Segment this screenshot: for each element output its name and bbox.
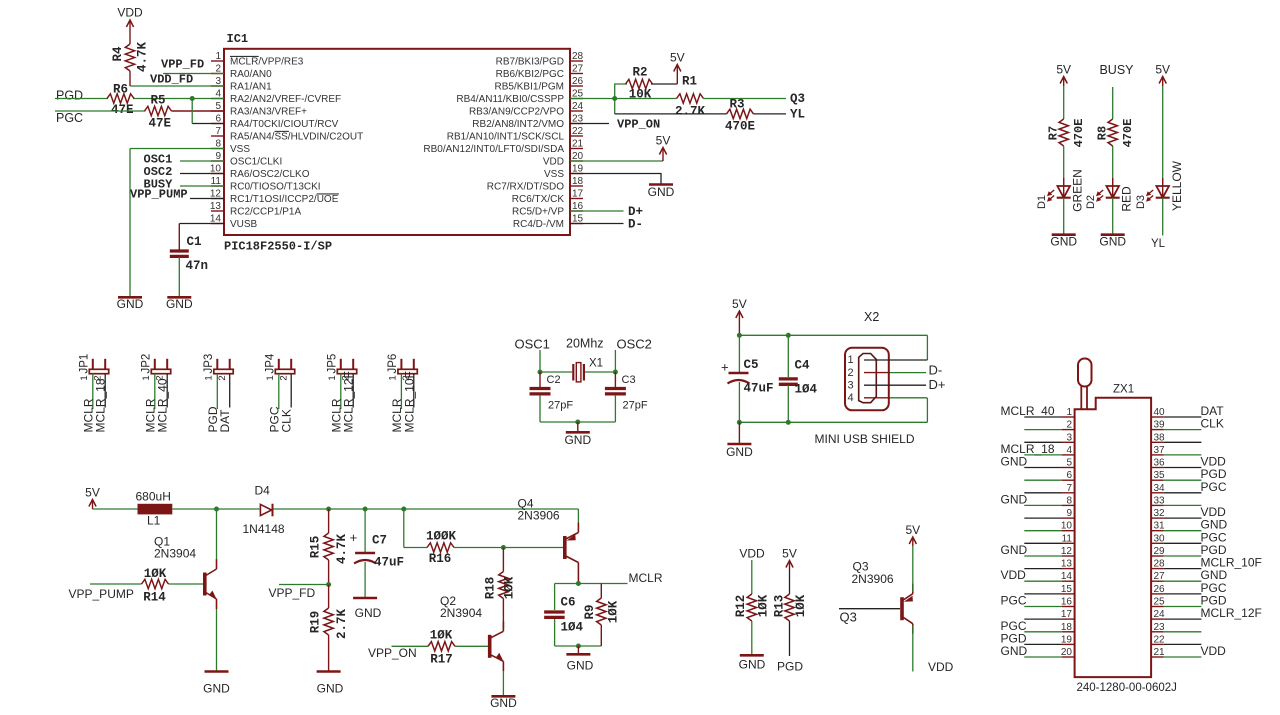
svg-text:PGC: PGC [1001,594,1027,608]
svg-text:27: 27 [572,64,584,75]
wire Q1 collector [216,509,218,560]
svg-text:1Ø4: 1Ø4 [795,383,818,397]
transistor Q4 (pnp) [518,497,579,573]
wire C7 to GND [364,562,366,597]
node label MCLR (JP5) [329,398,343,432]
wire R18 leads [502,548,504,629]
wire VPP_PUMP to R14 [90,583,142,585]
wire usb top rail [739,335,927,360]
svg-text:1N4148: 1N4148 [243,522,285,536]
wire JP6 pin2 net MCLR_10F [413,374,415,408]
node label MCLR_10F (JP6) [402,371,416,432]
wire C3 to rail [614,395,616,422]
node label YL [790,108,805,122]
svg-text:CLK: CLK [280,409,294,432]
svg-text:VDD_FD: VDD_FD [150,73,193,87]
node label VPP_FD (bottom) [269,586,316,600]
resistor R16 [426,530,457,567]
wire VPP_FD [279,584,329,586]
svg-text:2: 2 [848,367,854,379]
svg-text:13: 13 [210,201,222,212]
wire Q4 collector down [577,573,579,584]
svg-text:47uF: 47uF [374,556,404,570]
svg-text:CLK: CLK [1201,417,1224,431]
svg-text:R9: R9 [583,604,597,619]
resistor R13 [773,594,809,621]
wire R3 to YL label [754,113,787,115]
svg-text:PIC18F2550-I/SP: PIC18F2550-I/SP [224,240,332,254]
svg-text:JP1: JP1 [78,354,90,374]
led D3 labels [1135,160,1184,211]
node label VPP_PUMP [130,188,188,202]
svg-text:2N3906: 2N3906 [518,509,560,523]
node label PGD (JP3) [206,406,220,432]
resistor R17 [428,629,455,667]
svg-text:17: 17 [1061,609,1073,620]
svg-text:GND: GND [203,682,230,696]
svg-text:GND: GND [564,433,591,447]
svg-text:5: 5 [1066,458,1072,469]
usb connector X2 outline [845,348,889,411]
ground (Q2) [490,696,517,710]
ground (C7) [353,598,382,620]
ground (below VSS) [117,297,144,311]
svg-text:RC5/D+/VP: RC5/D+/VP [512,207,564,218]
svg-text:RA1/AN1: RA1/AN1 [230,82,272,93]
node label Q3 (base) [840,610,857,625]
svg-text:R5: R5 [151,94,166,108]
wire JP3 pin2 net DAT [229,374,231,408]
wire JP2 pin1 net MCLR [154,374,156,409]
ground (below C1) [166,297,193,311]
ic IC1 PIC18F2550 outline [224,49,570,235]
supply 5V (D1) [1056,63,1071,87]
svg-text:4: 4 [1066,445,1072,456]
zif ZX1 lever [1078,359,1092,410]
zif ZX1 left pins 1-20 with labels [1001,404,1075,658]
wire VPP_FD to pin2 [163,73,224,75]
wire R2 branch [615,84,678,99]
supply 5V (pin20) [656,134,671,162]
svg-text:47uF: 47uF [744,382,774,396]
svg-text:X1: X1 [589,358,603,370]
svg-text:C7: C7 [372,534,387,548]
svg-text:23: 23 [1154,622,1166,633]
svg-text:GND: GND [726,445,753,459]
node junction Q1 collector [214,507,219,512]
svg-text:+: + [721,360,729,375]
svg-text:5V: 5V [1155,63,1170,77]
svg-text:R12: R12 [734,595,748,618]
svg-text:R7: R7 [1047,126,1061,140]
node label D- (usb) [929,363,943,378]
svg-text:8: 8 [1066,495,1072,506]
svg-text:VPP_FD: VPP_FD [161,58,204,72]
wire usb pin4 [864,397,927,399]
svg-text:C2: C2 [547,374,561,386]
svg-text:5V: 5V [782,547,797,561]
wire to X1 left [540,371,572,373]
wire X1 to OSC2 node [585,371,615,373]
svg-text:MCLR_12F: MCLR_12F [342,371,356,432]
wire OSC1 down [539,350,541,372]
svg-text:32: 32 [1154,508,1166,519]
svg-text:OSC2: OSC2 [617,337,652,352]
wire VPP_ON pin23 [570,123,609,125]
svg-text:DAT: DAT [218,409,232,433]
svg-text:RC6/TX/CK: RC6/TX/CK [512,194,565,205]
supply VDD arrow (top left) [117,6,143,45]
led D3 [1146,178,1170,202]
svg-text:D2: D2 [1085,195,1097,209]
svg-text:RA6/OSC2/CLKO: RA6/OSC2/CLKO [230,169,310,180]
svg-text:R6: R6 [113,83,128,97]
resistor R19 [309,608,350,639]
svg-text:+: + [350,530,358,545]
wire Q2 emitter to GND [502,671,504,695]
svg-text:VPP_ON: VPP_ON [368,646,417,660]
svg-text:1ØK: 1ØK [757,594,771,617]
svg-text:GND: GND [1001,492,1028,506]
svg-text:RB0/AN12/INT0/LFT0/SDI/SDA: RB0/AN12/INT0/LFT0/SDI/SDA [423,144,564,155]
zif ZX1 labels [1077,384,1177,695]
wire junction to pin6 [192,99,224,124]
wire usb pin2 D- [864,372,926,374]
wire pin25 net [570,98,677,100]
svg-text:40: 40 [1154,407,1166,418]
node junction C4 bottom [786,420,791,425]
node label MCLR [629,571,663,585]
node junction C2 [538,370,543,375]
wire VUSB pin14 to C1 [179,224,224,250]
svg-text:31: 31 [1154,521,1166,532]
node label OSC1 (xtal) [515,337,550,352]
node junction C7 top [363,507,368,512]
svg-text:C4: C4 [795,359,811,373]
svg-text:L1: L1 [147,514,161,528]
svg-text:RC7/RX/DT/SDO: RC7/RX/DT/SDO [487,182,564,193]
jumper JP4 [264,353,294,381]
svg-text:VPP_PUMP: VPP_PUMP [69,587,134,601]
svg-text:MCLR: MCLR [629,571,663,585]
svg-text:D-: D- [929,363,943,378]
wire D- pin15 [570,223,624,225]
node label D- (ic) [628,218,643,232]
node junction xtal gnd [575,420,580,425]
node label PGC [56,111,83,125]
node label BUSY (top) [1099,63,1134,77]
wire usb pin1 [864,359,927,361]
svg-text:5V: 5V [1056,63,1071,77]
svg-text:2: 2 [279,375,290,380]
svg-text:VDD: VDD [928,660,954,674]
wire C2 to rail [539,395,541,422]
transistor Q2 [440,594,504,671]
wire Q3 emitter up [912,546,914,592]
svg-text:47E: 47E [149,117,172,131]
svg-text:12: 12 [1061,546,1073,557]
wire BUSY to pin11 [180,185,224,187]
node label VDD (Q3) [928,660,954,674]
transistor Q1 [154,535,217,610]
wire Q1 emitter to GND [216,609,218,671]
wire PGD [55,98,192,100]
wire 5V to D3 [1162,86,1164,186]
svg-text:GND: GND [317,682,344,696]
svg-text:1ØK: 1ØK [144,567,167,581]
svg-text:19: 19 [1061,634,1073,645]
svg-text:10K: 10K [629,88,652,102]
resistor R2 [626,66,653,102]
wire C1 to GND [178,257,180,296]
supply 5V (R2) [670,51,685,85]
capacitor C4 [779,335,818,396]
wire R17 to Q2 base [455,645,488,647]
svg-text:2.7K: 2.7K [335,609,349,640]
svg-text:PGD: PGD [777,660,803,674]
capacitor C3 [605,374,648,412]
resistor R7 [1047,119,1087,148]
svg-text:5V: 5V [670,51,685,65]
svg-text:MCLR_40: MCLR_40 [1001,404,1055,418]
svg-text:RC1/T1OSI/ICCP2/UOE: RC1/T1OSI/ICCP2/UOE [230,194,339,205]
svg-text:470E: 470E [725,120,755,134]
svg-text:38: 38 [1154,432,1166,443]
svg-text:1: 1 [327,375,338,380]
node label VPP_ON (bottom) [368,646,417,660]
led D2 [1096,178,1120,202]
wire C2 lead [539,372,541,388]
wire OSC2 up [614,350,616,372]
wire JP1 pin1 net MCLR [92,374,94,409]
svg-text:18: 18 [572,176,584,187]
node label MCLR_40 (JP2) [156,378,170,432]
node junction C3 [613,370,618,375]
svg-text:1: 1 [141,375,152,380]
svg-text:R8: R8 [1096,126,1110,140]
svg-text:D3: D3 [1135,195,1147,209]
led D1 [1047,178,1071,202]
node junction VPP_FD [326,582,331,587]
svg-text:RED: RED [1120,186,1134,212]
svg-text:47E: 47E [111,103,134,117]
svg-text:VPP_FD: VPP_FD [269,586,316,600]
svg-text:39: 39 [1154,420,1166,431]
wire JP4 pin2 net CLK [290,374,292,408]
svg-text:4.7K: 4.7K [136,42,150,73]
svg-text:1: 1 [203,375,214,380]
svg-text:C3: C3 [622,374,636,386]
svg-text:1: 1 [215,51,221,62]
svg-text:28: 28 [572,51,584,62]
node label MCLR_18 (JP1) [94,378,108,432]
svg-text:VPP_PUMP: VPP_PUMP [130,188,188,202]
svg-text:26: 26 [572,76,584,87]
svg-text:JP2: JP2 [140,354,152,374]
svg-text:29: 29 [1154,546,1166,557]
resistor R18 [484,572,517,600]
wire R9 leads [600,584,602,647]
svg-text:RB7/BKI3/PGD: RB7/BKI3/PGD [496,57,564,68]
led D2 labels [1085,186,1134,212]
svg-text:MCLR_18: MCLR_18 [94,378,108,432]
node junction C6R9 gnd [576,644,581,649]
svg-text:22: 22 [572,126,584,137]
svg-text:R16: R16 [429,552,452,566]
svg-text:RB6/KBI2/PGC: RB6/KBI2/PGC [496,69,564,80]
svg-text:R14: R14 [143,591,166,605]
svg-text:RA0/AN0: RA0/AN0 [230,69,272,80]
wire R13 to PGD [789,621,791,656]
node junction C4 top [786,333,791,338]
node label YL (bottom) [1151,238,1166,250]
svg-text:26: 26 [1154,584,1166,595]
wire R19 leads [328,585,330,672]
svg-text:1ØK: 1ØK [794,594,808,617]
wire JP6 pin1 net MCLR [400,374,402,409]
svg-text:Q3: Q3 [790,92,805,106]
ground (C6/R9) [566,646,593,673]
wire VPP_ON to R17 [392,645,429,647]
wire R14 to Q1 base [169,583,204,585]
svg-text:VDD: VDD [117,6,143,20]
svg-text:R1: R1 [682,75,697,89]
svg-text:24: 24 [1154,609,1166,620]
svg-text:470E: 470E [1121,119,1135,148]
svg-text:JP3: JP3 [203,354,215,374]
svg-text:37: 37 [1154,445,1166,456]
svg-text:VUSB: VUSB [230,219,258,230]
svg-text:R2: R2 [632,66,647,80]
svg-text:R19: R19 [309,611,323,634]
node junction pin25 [612,96,617,101]
node junction R16 top [401,507,406,512]
svg-text:VPP_ON: VPP_ON [617,118,660,132]
node label D+ (ic) [628,205,643,219]
wire R8 to D2 [1112,146,1114,186]
wire pin4 to IC [192,98,224,100]
svg-text:YL: YL [1151,238,1166,250]
svg-text:RA4/T0CKI/CIOUT/RCV: RA4/T0CKI/CIOUT/RCV [230,119,339,130]
svg-text:21: 21 [572,139,584,150]
svg-text:PGC: PGC [56,111,83,125]
node junction C5 bottom [737,420,742,425]
supply 5V (pump) [85,486,100,510]
node label VPP_ON [617,118,660,132]
usb X2 labels [815,310,915,446]
supply 5V (D3) [1155,63,1170,87]
wire C7 top lead [364,509,366,552]
wire MCLR net [555,583,628,585]
svg-text:15: 15 [1061,584,1073,595]
wire JP5 pin2 net MCLR_12F [352,374,354,408]
svg-text:D+: D+ [929,377,946,392]
wire JP5 pin1 net MCLR [340,374,342,409]
ic IC1 pins and pin labels [210,51,584,230]
svg-text:1: 1 [388,375,399,380]
svg-text:5V: 5V [85,486,100,500]
resistor R4 [111,42,150,86]
svg-text:3: 3 [848,379,854,391]
wire JP4 pin1 net PGC [278,374,280,409]
wire C4 to rail [787,385,789,422]
svg-text:9: 9 [1066,508,1072,519]
node label VPP_PUMP (bottom) [69,587,134,601]
svg-text:JP4: JP4 [264,353,276,373]
svg-text:16: 16 [1061,597,1073,608]
svg-text:Q3: Q3 [840,610,857,625]
svg-text:BUSY: BUSY [1099,63,1134,77]
wire R16 to Q4 base [454,547,563,549]
node label CLK (JP4) [280,409,294,432]
svg-text:2N3904: 2N3904 [154,547,196,561]
svg-text:VSS: VSS [544,169,564,180]
svg-text:R13: R13 [773,595,787,618]
diode D4 [243,484,285,536]
node label MCLR (JP1) [81,398,95,432]
svg-text:D4: D4 [255,484,271,498]
svg-text:VSS: VSS [230,144,250,155]
node label OSC2 (xtal) [617,337,652,352]
capacitor C6 [544,596,583,635]
wire R1 to Q3 label [704,98,787,100]
ic IC1 name label [227,32,249,46]
resistor R12 [734,594,771,621]
node junction R15 top [326,507,331,512]
wire JP2 pin2 net MCLR_40 [166,374,168,408]
svg-text:D-: D- [628,218,643,232]
svg-text:GND: GND [1001,644,1028,658]
svg-text:PGC: PGC [1201,480,1227,494]
svg-text:6: 6 [1066,470,1072,481]
ground (pin19) [648,185,675,200]
svg-text:20Mhz: 20Mhz [566,337,604,351]
wire Q4 emitter up [577,509,579,523]
svg-text:RC2/CCP1/P1A: RC2/CCP1/P1A [230,207,301,218]
wire C6 branch [554,584,556,611]
wire C3 lead [614,372,616,388]
svg-text:30: 30 [1154,533,1166,544]
zif socket ZX1 body [1075,398,1152,677]
wire VSS pin19 [570,174,661,184]
svg-text:MCLR_10F: MCLR_10F [402,371,416,432]
ground (D2) [1099,235,1126,249]
svg-text:GND: GND [490,696,517,710]
supply 5V (usb) [732,297,747,335]
ground (Q1) [203,672,230,696]
svg-text:ZX1: ZX1 [1113,384,1134,396]
svg-text:R18: R18 [484,577,498,600]
resistor R14 [142,567,169,605]
svg-text:GND: GND [1050,235,1077,249]
wire xtal gnd rail [540,421,615,423]
node label PGD (R13) [777,660,803,674]
svg-text:RB2/AN8/INT2/VMO: RB2/AN8/INT2/VMO [472,119,564,130]
svg-text:7: 7 [215,126,221,137]
node junction pin4 [190,96,195,101]
svg-text:27pF: 27pF [623,400,648,412]
wire R3 branch [615,99,727,114]
svg-text:1: 1 [1066,407,1072,418]
node label VPP_FD [161,58,204,72]
node label DAT (JP3) [218,409,232,433]
svg-text:5V: 5V [905,523,920,537]
wire 5V to L1 [93,508,138,510]
node label VDD_FD [150,73,193,87]
svg-text:1ØK: 1ØK [607,600,621,623]
svg-text:C1: C1 [187,235,202,249]
svg-text:R17: R17 [430,653,453,667]
